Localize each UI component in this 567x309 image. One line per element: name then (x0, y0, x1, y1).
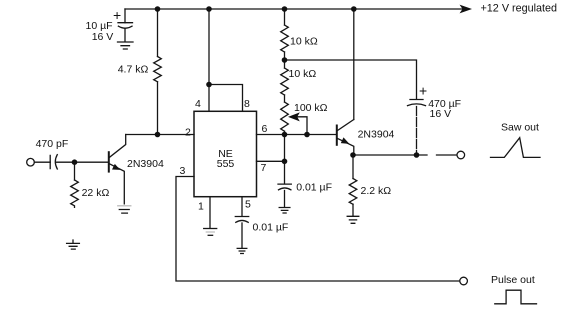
svg-text:3: 3 (180, 165, 186, 177)
wire input to C3 (35, 161, 51, 163)
capacitor C2 470uF plates (408, 100, 426, 106)
svg-text:22 kΩ: 22 kΩ (82, 187, 110, 199)
resistor R6 2.2k body (349, 179, 357, 205)
ground below C4 (237, 248, 247, 253)
svg-text:0.01 µF: 0.01 µF (253, 222, 289, 234)
transistor Q2 base bar (336, 126, 338, 145)
svg-text:10 kΩ: 10 kΩ (289, 68, 317, 80)
svg-text:7: 7 (261, 162, 267, 174)
transistor Q1 emitter (110, 164, 125, 204)
potentiometer R4 wiper wire (298, 117, 308, 135)
IC U1 NE555 body (194, 111, 257, 196)
resistor R6 2.2k upper lead (352, 155, 354, 179)
wire pin6 node down to pin7 node and C5 (284, 135, 286, 184)
svg-text:8: 8 (244, 98, 250, 110)
resistor R1 4.7k top lead (157, 9, 159, 57)
svg-text:16 V: 16 V (430, 108, 452, 120)
svg-text:2.2 kΩ: 2.2 kΩ (361, 185, 392, 197)
wire pin 7 to node (257, 160, 285, 162)
wire pin 6 to Q2 base (257, 134, 337, 136)
wire top power rail (125, 8, 462, 10)
wire rail to Q2 collector (353, 9, 355, 120)
svg-text:Saw out: Saw out (501, 122, 539, 134)
wire between R3 and R4 (284, 95, 286, 102)
junction dot pin4 bracket (206, 82, 212, 88)
wire Q1 collector / R1 to pin 2 (126, 134, 194, 136)
svg-text:100 kΩ: 100 kΩ (294, 102, 328, 114)
junction dot wiper node (304, 132, 310, 138)
ground floating below R5 (67, 240, 80, 249)
capacitor C5 lower lead (284, 191, 286, 207)
resistor R3 10k body (281, 68, 289, 95)
svg-text:0.01 µF: 0.01 µF (296, 182, 332, 194)
transistor Q2 collector (338, 120, 354, 131)
junction dot Q2 emitter/saw (350, 152, 356, 158)
svg-text:1: 1 (198, 201, 204, 213)
resistor R5 22k body (71, 180, 79, 207)
input terminal circle (27, 158, 35, 166)
capacitor C1 lower lead (124, 29, 126, 42)
svg-text:2: 2 (185, 127, 191, 139)
junction dot divider mid (282, 57, 288, 63)
wire R4 to pin6 node (284, 131, 286, 134)
wire pin 3 to pulse output (176, 177, 460, 282)
pulse output terminal circle (460, 277, 468, 285)
junction dot rail/divider (282, 6, 288, 12)
resistor R5 22k upper lead (74, 162, 76, 180)
resistor R1 4.7k bottom lead (157, 82, 159, 135)
wire between R2 and R3 (284, 52, 286, 68)
capacitor C1 10uF plates (118, 23, 133, 29)
svg-text:2N3904: 2N3904 (127, 158, 164, 170)
resistor R1 4.7k body (154, 57, 162, 82)
svg-text:4.7 kΩ: 4.7 kΩ (118, 64, 149, 76)
capacitor C5 0.01uF plates (278, 184, 291, 190)
svg-text:16 V: 16 V (92, 31, 114, 43)
ground below pin 1 (204, 228, 217, 230)
svg-text:+12 V regulated: +12 V regulated (481, 2, 558, 14)
svg-text:Pulse out: Pulse out (491, 274, 535, 286)
svg-text:10 kΩ: 10 kΩ (290, 36, 318, 48)
transistor Q1 emitter arrowhead (112, 164, 120, 170)
wire rail to pins 4,8 (208, 9, 210, 111)
junction dot rail/Q2 collector (351, 6, 357, 12)
svg-text:+: + (113, 7, 121, 23)
resistor R2 10k body (281, 25, 289, 52)
wire divider node to 470uF cap (285, 60, 417, 99)
svg-text:6: 6 (262, 123, 268, 135)
transistor Q2 emitter (338, 139, 354, 156)
wire pin 5 to C4 (241, 197, 243, 216)
junction dot pin6 node (282, 132, 288, 138)
ground below C5 (279, 208, 290, 214)
pulse waveform icon (495, 290, 537, 304)
svg-text:+: + (419, 83, 427, 99)
wire bracket pin4 to pin8 (209, 85, 243, 112)
svg-text:2N3904: 2N3904 (358, 129, 395, 141)
ground below R6 (347, 216, 359, 223)
transistor Q1 collector (110, 135, 126, 158)
potentiometer R4 100k body (281, 102, 289, 131)
junction dot rail/pin4 line (206, 6, 212, 12)
transistor Q2 emitter arrowhead (341, 137, 350, 144)
capacitor C4 lower lead (241, 223, 243, 248)
wire C3 to Q1 base (57, 161, 109, 163)
capacitor C3 470pF plates (50, 155, 57, 169)
junction dot input/R5 (72, 159, 78, 165)
wire pin 1 to ground (209, 197, 211, 228)
arrowhead +12V supply (460, 5, 473, 14)
ground below Q1 emitter (118, 205, 131, 207)
junction dot C2/saw (414, 152, 420, 158)
junction dot R1/pin2 (155, 132, 161, 138)
junction dot rail/R1 (155, 6, 161, 12)
junction dot pin7 node (282, 159, 288, 165)
svg-text:4: 4 (195, 98, 201, 110)
potentiometer R4 wiper arrowhead (288, 112, 300, 121)
saw output terminal circle (457, 151, 465, 159)
capacitor C4 0.01uF plates (235, 217, 248, 223)
wire saw output line (353, 154, 457, 156)
svg-text:5: 5 (245, 199, 251, 211)
svg-text:555: 555 (217, 158, 235, 170)
ground below C1 (118, 42, 134, 49)
wire rail down through divider chain stub (284, 9, 286, 25)
resistor R6 2.2k lower lead (352, 204, 354, 215)
svg-text:470 pF: 470 pF (36, 138, 69, 150)
capacitor C1 10uF top plate lead (124, 9, 126, 23)
capacitor C2 lower lead (416, 107, 418, 156)
saw waveform icon (491, 138, 541, 158)
transistor Q1 base bar (108, 152, 110, 171)
